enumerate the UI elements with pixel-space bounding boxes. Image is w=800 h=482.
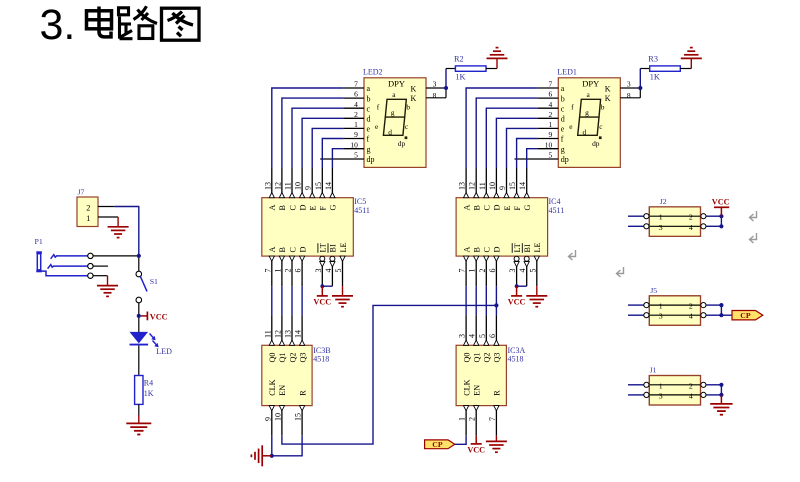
svg-text:G: G (523, 205, 532, 211)
svg-text:Q2: Q2 (288, 352, 297, 362)
switch S1 (136, 258, 158, 303)
junction IC3B CLK/R/ground (270, 454, 274, 458)
svg-text:9: 9 (498, 186, 507, 190)
svg-text:1: 1 (468, 269, 477, 273)
connector J1 (649, 376, 700, 406)
svg-text:3: 3 (433, 80, 437, 89)
svg-text:Q3: Q3 (493, 352, 502, 362)
svg-text:B: B (278, 205, 287, 211)
junction cascade at IC4 D input (494, 303, 498, 307)
svg-text:1K: 1K (650, 73, 660, 82)
svg-text:dp: dp (398, 139, 406, 148)
connector J2 (649, 207, 700, 237)
svg-text:b: b (367, 94, 371, 103)
svg-text:9: 9 (354, 130, 358, 139)
svg-text:2: 2 (468, 417, 477, 421)
svg-text:K: K (605, 94, 611, 103)
svg-text:P1: P1 (35, 237, 43, 246)
svg-text:10: 10 (488, 182, 497, 190)
svg-text:10: 10 (273, 413, 282, 421)
svg-text:2: 2 (86, 203, 90, 212)
svg-text:9: 9 (263, 417, 272, 421)
svg-text:C: C (288, 247, 297, 253)
wire P1 contact3 to ground (93, 276, 107, 286)
connector J2 pins (644, 197, 707, 236)
svg-text:dp: dp (561, 155, 569, 164)
svg-text:DPY: DPY (582, 79, 599, 89)
svg-text:d: d (561, 115, 565, 124)
svg-text:B: B (473, 247, 482, 253)
svg-text:3: 3 (659, 312, 663, 321)
svg-text:CLK: CLK (462, 379, 471, 395)
power VCC at J2 (712, 197, 730, 216)
svg-text:6: 6 (354, 90, 358, 99)
wire R4 to ground (138, 404, 140, 423)
wire IC3B EN to IC3A Q3 (cascade) (282, 305, 497, 444)
power VCC at IC4 LT/BI (508, 284, 527, 306)
wire LED to R4 (138, 346, 140, 376)
svg-text:CLK: CLK (268, 379, 277, 395)
svg-text:2: 2 (478, 269, 487, 273)
svg-text:2: 2 (548, 110, 552, 119)
svg-text:14: 14 (294, 330, 303, 338)
svg-text:3: 3 (458, 334, 467, 338)
svg-text:1: 1 (659, 381, 663, 390)
svg-text:d: d (367, 115, 371, 124)
svg-text:4518: 4518 (508, 355, 524, 364)
svg-text:BI: BI (523, 244, 532, 252)
svg-text:12: 12 (273, 330, 282, 338)
svg-text:10: 10 (294, 182, 303, 190)
svg-text:K: K (411, 94, 417, 103)
svg-text:f: f (561, 135, 564, 144)
svg-text:R2: R2 (454, 54, 464, 63)
svg-text:4: 4 (689, 391, 693, 400)
svg-text:R: R (493, 390, 502, 396)
svg-text:3: 3 (314, 269, 323, 273)
svg-text:LE: LE (339, 242, 348, 252)
svg-text:1K: 1K (455, 73, 465, 82)
wire R3 cathode net (639, 69, 641, 98)
svg-text:4: 4 (548, 100, 552, 109)
svg-text:LT: LT (513, 243, 522, 252)
ground at IC4 LE (526, 286, 547, 307)
svg-text:BI: BI (329, 244, 338, 252)
svg-text:4: 4 (689, 312, 693, 321)
paragraph mark 3 (617, 267, 624, 277)
wires IC5 inputs (272, 286, 302, 315)
wire P1 contact1 to junction (93, 255, 139, 257)
svg-text:7: 7 (354, 80, 358, 89)
svg-text:3: 3 (508, 269, 517, 273)
svg-text:Q1: Q1 (278, 352, 287, 362)
svg-text:VCC: VCC (150, 312, 168, 321)
svg-text:LED2: LED2 (363, 68, 383, 77)
svg-text:4511: 4511 (354, 206, 370, 215)
wire IC3B CLK to ground (271, 436, 273, 456)
svg-text:A: A (268, 247, 277, 253)
svg-text:b: b (406, 102, 410, 111)
power VCC at IC5 LT/BI (313, 284, 332, 306)
title character LU (road) (119, 6, 158, 38)
svg-text:3.: 3. (40, 1, 76, 49)
resistor R2 1K (446, 54, 497, 81)
svg-text:8: 8 (627, 91, 631, 100)
svg-text:CP: CP (432, 440, 443, 449)
svg-text:CP: CP (740, 311, 751, 320)
wire R2 cathode net (445, 69, 447, 98)
svg-text:dp: dp (367, 155, 375, 164)
connector J7 (77, 188, 118, 227)
counter IC IC3A 4518 (456, 315, 525, 405)
svg-text:6: 6 (488, 269, 497, 273)
ground at R2 (inverted) (487, 48, 508, 69)
svg-text:R3: R3 (648, 54, 658, 63)
svg-text:15: 15 (314, 182, 323, 190)
svg-text:R4: R4 (144, 379, 153, 388)
svg-text:EN: EN (278, 385, 287, 396)
ground at P1 (97, 286, 118, 297)
svg-text:J2: J2 (660, 197, 667, 206)
ground at J1 (710, 395, 732, 415)
svg-text:3: 3 (627, 80, 631, 89)
svg-text:1: 1 (354, 120, 358, 129)
svg-text:5: 5 (334, 269, 343, 273)
svg-text:F: F (319, 206, 328, 211)
paragraph mark 4 (569, 250, 576, 260)
svg-text:11: 11 (263, 330, 272, 338)
wire P1 contact2 stub (93, 265, 108, 267)
svg-text:J5: J5 (650, 286, 657, 295)
svg-text:c: c (367, 104, 371, 113)
svg-text:G: G (329, 205, 338, 211)
wires IC4 inputs (466, 286, 496, 315)
svg-text:Q2: Q2 (483, 352, 492, 362)
svg-text:1: 1 (659, 302, 663, 311)
resistor R4 1K (135, 376, 154, 405)
7-segment display LED2 DPY (320, 68, 446, 168)
svg-text:F: F (513, 206, 522, 211)
paragraph mark 1 (750, 211, 757, 221)
svg-text:R: R (298, 390, 307, 396)
resistor R3 1K (640, 54, 691, 81)
svg-text:4: 4 (518, 269, 527, 273)
svg-text:E: E (309, 205, 318, 210)
svg-text:13: 13 (284, 330, 293, 338)
svg-text:LED1: LED1 (557, 68, 577, 77)
svg-text:DPY: DPY (388, 79, 405, 89)
svg-text:9: 9 (548, 130, 552, 139)
svg-text:10: 10 (545, 140, 553, 149)
title 3. (heading number) (40, 1, 76, 49)
svg-text:2: 2 (284, 269, 293, 273)
svg-text:11: 11 (478, 182, 487, 190)
wire J7 pin2 to S1 (114, 207, 139, 256)
svg-text:3: 3 (659, 223, 663, 232)
svg-text:b: b (561, 94, 565, 103)
wires J2 (628, 216, 721, 226)
junctions J1 (719, 383, 723, 397)
svg-text:A: A (462, 205, 471, 211)
svg-text:1: 1 (273, 269, 282, 273)
svg-text:2: 2 (689, 213, 693, 222)
svg-text:K: K (411, 84, 417, 93)
phone jack P1 (35, 237, 94, 278)
svg-text:Q1: Q1 (473, 352, 482, 362)
connector J1 pins (644, 366, 707, 405)
svg-text:EN: EN (473, 385, 482, 396)
svg-text:VCC: VCC (508, 298, 526, 307)
svg-text:B: B (278, 247, 287, 253)
svg-text:a: a (367, 84, 371, 93)
svg-text:C: C (483, 205, 492, 211)
svg-text:5: 5 (478, 334, 487, 338)
svg-text:7: 7 (488, 417, 497, 421)
svg-text:dp: dp (592, 139, 600, 148)
svg-text:5: 5 (548, 151, 552, 160)
svg-text:8: 8 (433, 91, 437, 100)
svg-text:c: c (561, 104, 565, 113)
svg-text:LT: LT (319, 243, 328, 252)
svg-text:g: g (585, 108, 589, 117)
svg-text:4: 4 (468, 334, 477, 338)
svg-text:D: D (493, 247, 502, 253)
svg-text:1: 1 (458, 417, 467, 421)
svg-text:15: 15 (508, 182, 517, 190)
svg-text:10: 10 (350, 140, 358, 149)
IC IC5 4511 BCD-to-7seg decoder (262, 168, 370, 286)
svg-text:3: 3 (659, 391, 663, 400)
net flag CP at IC3A clock (425, 440, 455, 449)
svg-text:J7: J7 (78, 188, 85, 197)
ground at IC3B (rotated) (251, 445, 271, 466)
svg-text:5: 5 (354, 151, 358, 160)
svg-text:1: 1 (548, 120, 552, 129)
svg-text:VCC: VCC (313, 298, 331, 307)
svg-text:4518: 4518 (313, 355, 329, 364)
wire CP flag to IC3A CLK (455, 436, 466, 445)
svg-text:d: d (583, 128, 587, 137)
svg-text:d: d (388, 128, 392, 137)
title character DIAN (electric) (87, 7, 112, 37)
junctions J5 (719, 303, 723, 317)
LED indicator (130, 332, 173, 356)
svg-text:D: D (493, 205, 502, 211)
svg-text:D: D (298, 205, 307, 211)
title character TU (diagram) (162, 8, 200, 40)
svg-text:A: A (268, 205, 277, 211)
junction VCC tap (137, 314, 141, 318)
svg-text:K: K (605, 84, 611, 93)
svg-text:12: 12 (468, 182, 477, 190)
svg-text:1: 1 (86, 214, 90, 223)
svg-text:13: 13 (263, 182, 272, 190)
svg-text:6: 6 (294, 269, 303, 273)
svg-text:4: 4 (324, 269, 333, 273)
ground at IC5 LE (332, 286, 353, 307)
svg-text:5: 5 (528, 269, 537, 273)
svg-text:2: 2 (689, 381, 693, 390)
svg-text:6: 6 (548, 90, 552, 99)
svg-text:12: 12 (273, 182, 282, 190)
IC3A control pins CLK EN R (458, 379, 502, 435)
svg-text:Q0: Q0 (462, 352, 471, 362)
svg-text:Q3: Q3 (298, 352, 307, 362)
svg-text:D: D (298, 247, 307, 253)
wire S1 to LED anode (138, 303, 140, 332)
svg-text:1K: 1K (144, 389, 154, 398)
svg-text:C: C (288, 205, 297, 211)
wires J1 (628, 385, 721, 395)
paragraph mark 2 (750, 233, 757, 243)
svg-text:9: 9 (304, 186, 313, 190)
junction J7/P1/S1 (137, 254, 141, 258)
svg-text:VCC: VCC (712, 197, 730, 206)
svg-text:C: C (483, 247, 492, 253)
junctions J2 (719, 214, 723, 228)
svg-text:7: 7 (548, 80, 552, 89)
svg-text:2: 2 (354, 110, 358, 119)
svg-text:14: 14 (324, 182, 333, 190)
IC IC4 4511 BCD-to-7seg decoder (456, 168, 564, 286)
svg-text:E: E (503, 205, 512, 210)
ground at J7 pin1 (108, 217, 129, 238)
net flag CP at J5 (721, 311, 762, 321)
svg-text:f: f (367, 135, 370, 144)
svg-text:J1: J1 (650, 366, 657, 375)
svg-text:a: a (561, 84, 565, 93)
svg-text:e: e (561, 125, 565, 134)
junction at R2 (444, 86, 448, 90)
svg-text:g: g (561, 145, 565, 154)
svg-text:6: 6 (488, 334, 497, 338)
connector J5 (649, 296, 700, 326)
junction at R3 (638, 86, 642, 90)
svg-text:7: 7 (458, 269, 467, 273)
svg-text:S1: S1 (150, 277, 158, 286)
svg-text:4511: 4511 (549, 206, 565, 215)
wires IC5 outputs to display (272, 88, 344, 168)
svg-text:LE: LE (533, 242, 542, 252)
wires IC4 outputs to display (466, 88, 538, 168)
counter IC IC3B 4518 (262, 315, 331, 405)
ground below R4 (126, 423, 151, 434)
wires J5 (628, 305, 721, 315)
svg-text:13: 13 (458, 182, 467, 190)
svg-text:7: 7 (263, 269, 272, 273)
power VCC at switch (141, 312, 168, 322)
svg-text:11: 11 (284, 182, 293, 190)
svg-text:15: 15 (294, 413, 303, 421)
svg-text:B: B (473, 205, 482, 211)
ground at R3 (inverted) (681, 48, 702, 69)
svg-text:Q0: Q0 (268, 352, 277, 362)
svg-text:b: b (601, 102, 605, 111)
svg-text:2: 2 (689, 302, 693, 311)
svg-text:4: 4 (354, 100, 358, 109)
7-segment display LED1 DPY (515, 68, 641, 168)
svg-text:e: e (367, 125, 371, 134)
svg-text:g: g (367, 145, 371, 154)
ground at IC3A R (486, 436, 507, 453)
svg-text:A: A (462, 247, 471, 253)
svg-text:g: g (391, 108, 395, 117)
power VCC at IC3A EN (467, 436, 485, 455)
wire IC3B R to ground (272, 436, 302, 456)
svg-text:4: 4 (689, 223, 693, 232)
connector J5 pins (644, 286, 707, 325)
svg-text:14: 14 (518, 182, 527, 190)
svg-text:LED: LED (156, 347, 172, 356)
svg-text:1: 1 (659, 213, 663, 222)
svg-text:VCC: VCC (467, 446, 485, 455)
IC3B control pins CLK EN R (263, 379, 307, 435)
